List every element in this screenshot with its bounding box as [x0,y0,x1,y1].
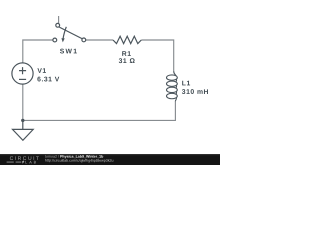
svg-text:http://circuitlab.com/c/qjwfhg: http://circuitlab.com/c/qjwfhg4/qd8ewp3k… [45,159,114,163]
svg-text:310 mH: 310 mH [182,89,209,96]
svg-text:R1: R1 [122,51,132,58]
svg-text:L1: L1 [182,80,191,87]
svg-text:V1: V1 [37,68,46,75]
svg-text:LAB: LAB [25,160,38,164]
svg-text:31 Ω: 31 Ω [119,58,136,65]
svg-text:6.31 V: 6.31 V [37,76,60,83]
svg-text:SW1: SW1 [60,48,79,55]
